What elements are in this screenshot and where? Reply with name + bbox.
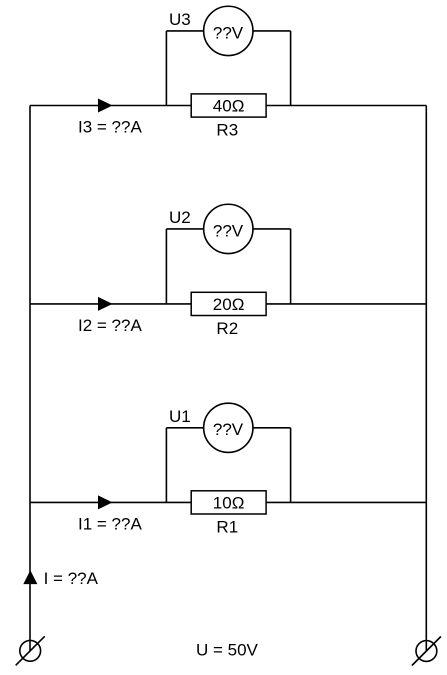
wire into right terminal (425, 641, 427, 651)
wire voltmeter loop left vertical (branch 3) (165, 31, 167, 106)
svg-text:R2: R2 (216, 319, 238, 338)
svg-text:40Ω: 40Ω (213, 97, 245, 116)
svg-text:I = ??A: I = ??A (44, 569, 99, 588)
wire voltmeter loop top-right horizontal (branch 2) (253, 228, 291, 230)
voltmeter U2 (circle) (204, 204, 253, 253)
current arrow I3 (98, 99, 113, 113)
svg-text:U3: U3 (169, 10, 191, 29)
wire branch 1 horizontal (30, 501, 426, 503)
svg-text:U1: U1 (169, 407, 191, 426)
resistor R1 body (191, 491, 266, 514)
terminal slash (left) (16, 636, 45, 665)
wire voltmeter loop left vertical (branch 2) (165, 229, 167, 304)
wire voltmeter loop right vertical (branch 3) (290, 31, 292, 106)
svg-text:I3 = ??A: I3 = ??A (78, 118, 142, 137)
wire voltmeter loop top-right horizontal (branch 1) (253, 427, 291, 429)
svg-text:U2: U2 (169, 208, 191, 227)
voltmeter U3 (circle) (204, 6, 253, 55)
svg-text:U = 50V: U = 50V (196, 641, 259, 660)
resistor R2 body (191, 292, 266, 315)
wire into left terminal (29, 640, 31, 651)
main current arrow I (upward on left bus) (23, 570, 37, 584)
voltmeter U1 (circle) (204, 403, 253, 452)
wire voltmeter loop top-left horizontal (branch 2) (166, 228, 203, 230)
current arrow I2 (98, 297, 113, 311)
wire voltmeter loop top-left horizontal (branch 3) (166, 30, 203, 32)
wire left bus (29, 106, 31, 651)
current arrow I1 (98, 495, 113, 509)
terminal (right, circle) (416, 641, 437, 662)
svg-text:20Ω: 20Ω (213, 295, 245, 314)
wire voltmeter loop top-left horizontal (branch 1) (166, 427, 203, 429)
svg-text:I1 = ??A: I1 = ??A (78, 514, 142, 533)
wire branch 3 horizontal (30, 105, 426, 107)
resistor R3 body (191, 94, 266, 117)
wire voltmeter loop top-right horizontal (branch 3) (253, 30, 291, 32)
svg-text:I2 = ??A: I2 = ??A (78, 316, 142, 335)
svg-text:??V: ??V (213, 420, 244, 439)
terminal (left, circle) (20, 640, 41, 661)
terminal slash (right) (412, 637, 441, 666)
wire voltmeter loop left vertical (branch 1) (165, 428, 167, 503)
svg-text:R1: R1 (216, 517, 238, 536)
svg-text:??V: ??V (213, 23, 244, 42)
wire voltmeter loop right vertical (branch 1) (290, 428, 292, 503)
svg-text:R3: R3 (216, 121, 238, 140)
svg-text:10Ω: 10Ω (213, 493, 245, 512)
wire branch 2 horizontal (30, 303, 426, 305)
wire right bus (425, 106, 427, 652)
svg-text:??V: ??V (213, 221, 244, 240)
wire voltmeter loop right vertical (branch 2) (290, 229, 292, 304)
